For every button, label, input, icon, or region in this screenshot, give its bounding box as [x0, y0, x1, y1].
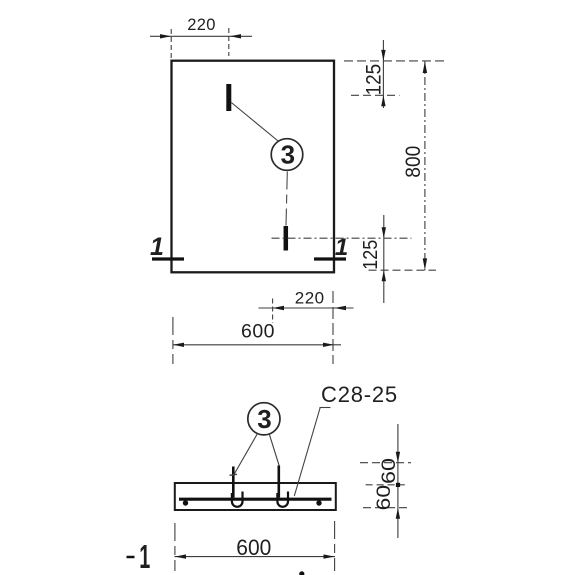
dim 125 top-right: upper tick line	[344, 60, 445, 62]
partial mark at bottom edge	[299, 571, 304, 575]
section view slab outline	[175, 483, 336, 510]
dim 600 bottom: right arrow	[324, 554, 335, 558]
dim 60/60: middle dot	[396, 483, 400, 487]
dim 125 bottom-right: upper arrow	[382, 227, 386, 238]
dashed leader from balloon to lower bar	[286, 172, 287, 226]
rebar 3 upper end (thick bar)	[226, 84, 231, 111]
dim 125 top-right: dimension line	[382, 40, 384, 108]
leader balloon to right loop	[269, 433, 279, 466]
leader from C28-25 underline	[320, 407, 331, 409]
dim 600 bottom: dimension line	[174, 556, 335, 558]
tick at end of left leader	[230, 474, 238, 475]
dim 600 mid: left arrow	[173, 343, 184, 347]
svg-text:60: 60	[378, 458, 400, 484]
svg-text:C28-25: C28-25	[321, 382, 398, 407]
rebar end dot right	[316, 500, 321, 505]
svg-text:1: 1	[335, 234, 348, 261]
dim 600 mid: left extension line	[172, 317, 174, 364]
dim 60/60: top tick	[360, 462, 411, 464]
dim 600 bottom: left extension line	[174, 523, 176, 571]
dim 800: bottom tick line	[369, 269, 437, 271]
svg-text:3: 3	[257, 404, 271, 434]
main rebar line in section	[179, 498, 332, 501]
svg-text:600: 600	[236, 535, 271, 560]
dim 800: top arrow	[423, 61, 427, 73]
dim 60/60: dimension line	[397, 424, 399, 538]
dim 600 mid: right arrow	[323, 343, 334, 347]
dim 220 top: left arrow	[160, 34, 171, 38]
svg-text:3: 3	[281, 140, 295, 170]
dim 125 top-right: lower arrow	[381, 95, 385, 106]
leader balloon to left loop	[234, 434, 258, 475]
balloon circle 3 (section view)	[248, 403, 280, 435]
dim 220 top: right arrow	[230, 34, 241, 38]
dim 600 bottom: right extension line	[334, 521, 336, 571]
section cut mark 1 right	[314, 257, 346, 260]
dim 800: dimension line	[424, 61, 426, 270]
section cut mark 1 left	[152, 257, 184, 260]
dim 220 top: left extension line	[170, 29, 172, 58]
dim 125 top-right: upper arrow	[381, 50, 385, 61]
svg-text:600: 600	[241, 321, 275, 343]
lifting loop right hook	[277, 492, 288, 507]
lifting loop right leg	[277, 466, 280, 498]
dim 600 bottom: left arrow	[175, 554, 186, 558]
leader from upper bar to balloon 3	[231, 103, 278, 142]
section mark 1 bottom left: dash	[127, 556, 135, 559]
balloon circle 3 (front view)	[271, 139, 303, 171]
lifting loop left hook	[232, 492, 243, 507]
centerline above upper bar	[228, 28, 230, 56]
rebar 3 lower end (thick bar)	[284, 226, 289, 251]
svg-text:125: 125	[363, 64, 386, 96]
dim 220 mid: dimension line	[259, 307, 354, 309]
svg-text:1: 1	[139, 538, 150, 575]
dim 220 mid: left arrow	[273, 306, 284, 310]
lifting loop left leg	[232, 467, 235, 498]
svg-text:220: 220	[295, 288, 325, 307]
dim 220 mid: right arrow	[334, 306, 346, 310]
dim 600 mid: dimension line	[173, 344, 342, 346]
svg-text:800: 800	[402, 146, 425, 178]
svg-text:125: 125	[360, 240, 382, 270]
dim 600 mid: right extension line	[332, 291, 334, 364]
dim 125 top-right: lower tick line	[351, 94, 400, 96]
front view panel outline 600x800	[172, 61, 335, 273]
dim 125 bottom-right: lower arrow	[382, 270, 386, 281]
svg-text:220: 220	[187, 16, 215, 34]
dim 60/60: bottom tick	[363, 507, 409, 509]
dim 800: bottom arrow	[423, 258, 427, 270]
dim 220 top: dimension line	[150, 35, 252, 37]
dim 60/60: middle tick	[366, 484, 405, 486]
dim 60/60: top arrow	[396, 452, 400, 463]
dim 220 mid: left extension line	[272, 299, 274, 324]
horizontal centerline through lower bar extending to 125 dim	[272, 237, 412, 239]
rebar end dot left	[183, 500, 188, 505]
dim 60/60: bottom arrow	[396, 508, 400, 519]
svg-text:1: 1	[150, 233, 164, 261]
dim 125 bottom-right: dimension line	[383, 215, 385, 303]
svg-text:60: 60	[373, 485, 395, 511]
